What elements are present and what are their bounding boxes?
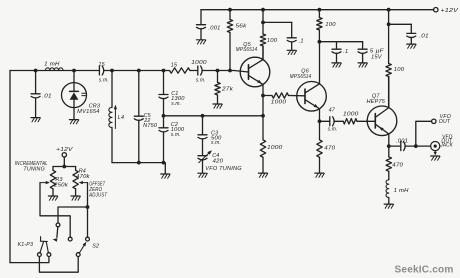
- svg-text:.001: .001: [396, 138, 408, 144]
- svg-text:OUT: OUT: [439, 119, 451, 125]
- wire varactor feed line: [10, 70, 164, 72]
- wire R4 wiper: [87, 183, 89, 207]
- node 56k top: [228, 8, 232, 12]
- resistor 1000 Q5-Q6 coupling: [263, 95, 272, 97]
- wire tank bottom: [112, 163, 165, 174]
- ground .01 left: [31, 117, 40, 119]
- svg-text:.01: .01: [419, 34, 429, 40]
- node 56k bottom: [228, 69, 232, 73]
- svg-text:56k: 56k: [236, 24, 248, 30]
- wire left rail: [9, 71, 11, 263]
- capacitor C3 500 s.m.: [202, 116, 204, 135]
- svg-text:.01: .01: [42, 93, 52, 99]
- wire S2 to K1 pole: [39, 257, 78, 273]
- svg-text:SeekIC.com: SeekIC.com: [395, 265, 454, 276]
- resistor 1000 Q5 emitter: [260, 140, 265, 158]
- ground 1000 Q5 emitter: [258, 172, 267, 174]
- svg-text:27k: 27k: [221, 86, 234, 92]
- svg-text:15: 15: [98, 62, 105, 68]
- terminal +12V tuning: [62, 153, 66, 157]
- node R4 wiper: [86, 205, 90, 209]
- wire to Q5 base: [218, 71, 249, 73]
- svg-text:N750: N750: [143, 123, 157, 129]
- svg-text:s.m.: s.m.: [99, 77, 110, 83]
- ground .01 Q7: [407, 43, 416, 45]
- capacitor .001 output: [389, 145, 401, 147]
- relay armature K1-P3: [40, 237, 49, 253]
- wire Q7 top lead: [388, 77, 390, 108]
- wire Q6 bypass branch: [319, 41, 362, 43]
- svg-text:.001: .001: [209, 25, 221, 31]
- ground tank: [161, 173, 170, 175]
- potentiometer R3 250k: [52, 167, 54, 171]
- node C1 C2 junction: [162, 114, 166, 118]
- wire Q5 collector: [262, 46, 264, 60]
- wire to VFO OUT JACK: [416, 145, 431, 147]
- resistor 100 Q5 collector: [260, 34, 265, 46]
- capacitor 15 s.m. coupling: [98, 66, 100, 75]
- ground jack: [431, 155, 440, 157]
- ground R3: [48, 195, 57, 197]
- contact S2 upper: [86, 237, 90, 241]
- wire pot supply: [63, 157, 65, 167]
- svg-text:47: 47: [329, 107, 336, 113]
- capacitor 47 s.m. coupling: [320, 120, 330, 122]
- svg-text:MPS6514: MPS6514: [236, 47, 257, 53]
- ground .001 bypass: [196, 39, 205, 41]
- ground .1 Q5: [287, 49, 296, 51]
- wire to VFO OUT terminal: [416, 121, 432, 146]
- svg-text:s.m.: s.m.: [196, 78, 206, 84]
- node tank feedback: [261, 114, 265, 118]
- node C5 top: [137, 69, 141, 73]
- node C3 top: [201, 114, 205, 118]
- wire Q6 supply branch: [318, 10, 320, 18]
- node Q7 branch: [387, 8, 391, 12]
- ground CR3: [69, 119, 78, 121]
- svg-text:100: 100: [394, 67, 405, 73]
- wire Q5 collector node: [262, 10, 264, 23]
- capacitor .001 supply bypass: [200, 10, 202, 25]
- svg-text:K1-P3: K1-P3: [18, 242, 33, 248]
- svg-text:1 mH: 1 mH: [394, 188, 409, 194]
- svg-text:1000: 1000: [267, 145, 283, 151]
- contact K1 lower: [68, 237, 72, 241]
- variable capacitor C4 420 VFO TUNING: [198, 155, 207, 157]
- svg-text:s.m.: s.m.: [171, 132, 181, 138]
- svg-text:MV1654: MV1654: [77, 109, 100, 115]
- resistor 470 Q6 emitter: [319, 121, 321, 140]
- potentiometer R4 470k: [75, 167, 77, 171]
- svg-text:JACK: JACK: [440, 143, 454, 149]
- svg-text:L4: L4: [118, 115, 124, 121]
- ground 470 Q6: [315, 172, 324, 174]
- svg-text:ADJUST: ADJUST: [88, 193, 107, 199]
- svg-text:.1: .1: [343, 49, 348, 55]
- ground 5uF: [358, 62, 367, 64]
- contact K1 pole A: [38, 253, 42, 257]
- node Q6 collector branch: [318, 8, 322, 12]
- transistor Q6 MPS6514: [297, 82, 327, 112]
- svg-text:470: 470: [324, 146, 335, 152]
- wire tank mid to Q5 emitter: [164, 115, 264, 117]
- node output: [414, 144, 418, 148]
- svg-text:100: 100: [325, 22, 336, 28]
- capacitor C2 1000 s.m.: [163, 116, 165, 128]
- node C2 bottom: [162, 161, 166, 165]
- ground 27k: [213, 103, 222, 105]
- svg-text:1000: 1000: [343, 112, 359, 118]
- svg-text:1000: 1000: [191, 60, 207, 66]
- wire Q6 emitter: [319, 109, 321, 122]
- resistor 1000 Q7 base: [343, 119, 357, 124]
- svg-text:TUNING: TUNING: [23, 167, 45, 173]
- ground R4: [71, 195, 80, 197]
- wire Q5 emitter: [262, 85, 264, 96]
- resistor 100 Q6 collector: [317, 18, 322, 31]
- svg-text:S2: S2: [92, 244, 99, 250]
- resistor 100 Q7: [388, 24, 390, 63]
- svg-text:VFO TUNING: VFO TUNING: [205, 166, 242, 172]
- resistor 56k: [229, 10, 231, 20]
- svg-text:470k: 470k: [76, 174, 90, 180]
- transistor Q7 HEP75: [367, 106, 397, 136]
- svg-text:s.m.: s.m.: [328, 127, 338, 133]
- svg-text:420: 420: [213, 159, 224, 165]
- node Q6 collector: [318, 40, 322, 44]
- transistor Q5 MPS6514: [240, 57, 270, 87]
- contact K1 upper: [56, 223, 60, 227]
- svg-text:s.m.: s.m.: [211, 140, 221, 146]
- inductor 1 mH RF choke: [46, 68, 64, 71]
- jack VFO OUT JACK: [431, 142, 440, 151]
- ground .1 Q6: [332, 62, 341, 64]
- svg-text:470: 470: [392, 163, 403, 169]
- terminal +12V: [434, 8, 438, 12]
- inductor 1 mH output: [386, 180, 389, 198]
- svg-text:HEP75: HEP75: [367, 99, 386, 105]
- svg-text:s.m.: s.m.: [171, 101, 181, 107]
- svg-text:+12V: +12V: [56, 147, 74, 153]
- contact K1 pole B: [47, 253, 51, 257]
- terminal VFO OUT: [432, 119, 436, 123]
- node Q5 collector branch: [261, 8, 265, 12]
- capacitor .1 Q6 bypass: [336, 42, 338, 49]
- capacitor .1 Q5 bypass: [291, 22, 293, 37]
- svg-text:15: 15: [171, 62, 178, 68]
- resistor 27k: [217, 71, 219, 83]
- wire Q7 supply branch: [388, 10, 390, 25]
- svg-text:1000: 1000: [271, 100, 287, 106]
- node Q7 output: [387, 144, 391, 148]
- wire R4 to K1 contact: [58, 207, 88, 223]
- ground C4: [198, 172, 207, 174]
- svg-text:1 mH: 1 mH: [44, 62, 60, 68]
- resistor 470 output: [388, 146, 390, 157]
- node 27k: [216, 69, 220, 73]
- wire Q6 collector: [319, 42, 321, 84]
- svg-text:.1: .1: [299, 39, 304, 45]
- inductor L4: [111, 71, 113, 108]
- wire Q7 bottom lead: [388, 134, 390, 146]
- wire S2 upper: [87, 207, 89, 237]
- wire left rail to K1: [10, 257, 49, 263]
- node C1 top: [162, 69, 166, 73]
- capacitor .01 left bypass: [35, 71, 37, 94]
- capacitor C5 22 N750: [138, 71, 140, 116]
- wire Q5 emitter to tank: [262, 96, 264, 140]
- svg-text:100: 100: [267, 38, 278, 44]
- node Q6 emitter: [318, 119, 322, 123]
- svg-text:MPS6514: MPS6514: [290, 74, 312, 80]
- resistor 15 series: [164, 70, 170, 72]
- capacitor .01 Q7 bypass: [410, 24, 412, 33]
- capacitor 5uF 15V: [362, 42, 364, 49]
- node Q5 emitter: [261, 94, 265, 98]
- svg-text:15V: 15V: [371, 55, 383, 61]
- node .01 left: [34, 69, 38, 73]
- ground output: [384, 203, 393, 205]
- node L4 top: [110, 69, 114, 73]
- svg-text:+12V: +12V: [441, 8, 460, 14]
- capacitor C1 1300 s.m.: [163, 71, 165, 95]
- capacitor 1000 s.m. series: [197, 66, 199, 75]
- varactor CR3 MV1654: [73, 71, 75, 83]
- svg-text:250k: 250k: [53, 183, 68, 189]
- wire R3 wiper route: [40, 183, 70, 238]
- switch S2: [76, 253, 80, 257]
- node C5 bottom: [137, 161, 141, 165]
- node varactor: [72, 69, 76, 73]
- wire +12V supply rail: [201, 9, 434, 11]
